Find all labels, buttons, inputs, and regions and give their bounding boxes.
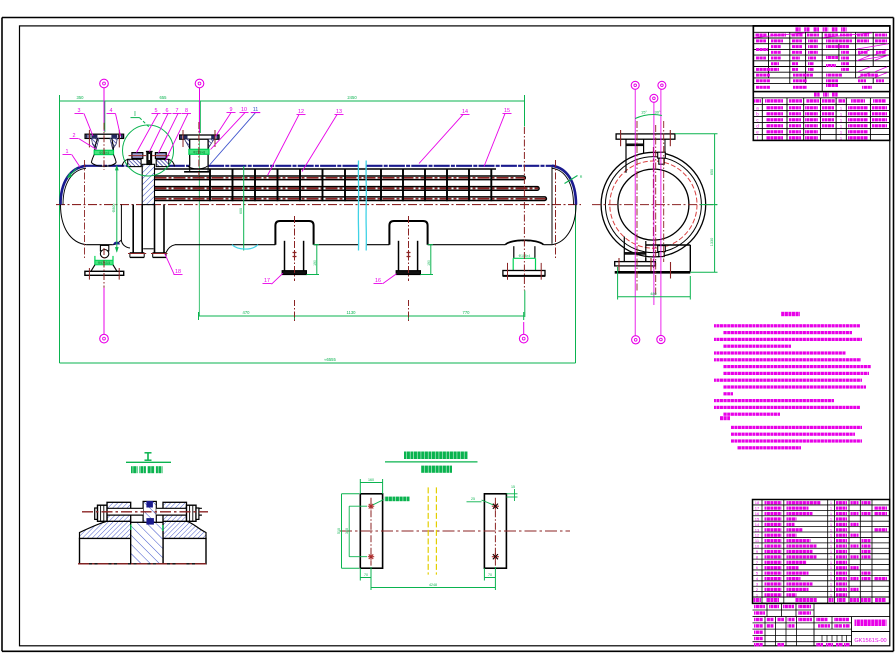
N1 bolts (red ticks) <box>88 130 90 148</box>
bill of materials table <box>753 500 890 604</box>
detail I: left flange ring <box>107 502 131 521</box>
svg-text:25: 25 <box>471 497 475 501</box>
svg-text:18: 18 <box>755 500 760 505</box>
detail I: right nut/washer <box>187 505 197 521</box>
main vessel centerline <box>56 204 581 206</box>
svg-text:17: 17 <box>755 506 760 511</box>
nozzle schedule table <box>753 91 890 93</box>
extension line left <box>59 99 61 363</box>
plate centerlines (red) <box>370 498 372 566</box>
svg-text:15: 15 <box>511 485 515 489</box>
svg-text:1130: 1130 <box>346 310 356 315</box>
detail I: right flange hub (hatched) <box>163 521 206 538</box>
right head lower half <box>552 205 576 245</box>
dimension line top overall <box>60 100 525 102</box>
end view bottom dim (green) <box>617 267 619 300</box>
cyan arc below shell <box>232 245 258 249</box>
tubesheet (sectioned band down to centerline) <box>142 164 154 204</box>
detail I circle (green) <box>123 125 174 176</box>
dimension line bottom row (nozzle/saddle spacing) <box>199 315 524 317</box>
end view right dims (green) <box>675 133 718 135</box>
N2 gasket (green) <box>189 149 209 154</box>
green dims: bottom left <box>359 568 361 580</box>
N1 skirt/weld to shell <box>91 155 94 163</box>
shell top line (navy, sectioned) <box>169 165 190 167</box>
bottom-left nozzle (drain on bonnet): coupling <box>100 245 108 251</box>
saddle centerline <box>408 216 410 281</box>
bonnet hub/tangent line <box>120 205 122 241</box>
tube bundle rows <box>155 168 497 170</box>
datum bubble a (nozzle N1) <box>100 79 109 88</box>
saddle centerline extensions (red) <box>294 300 296 321</box>
U-tube pair <box>155 197 547 201</box>
datum bubble b (nozzle N2) <box>195 79 204 88</box>
saddle height dim (green) <box>316 245 318 275</box>
svg-text:350: 350 <box>77 95 85 100</box>
saddle support 17: wear plate <box>275 221 313 245</box>
green dim: overall hole span <box>494 567 496 590</box>
svg-text:GK1561S-00: GK1561S-00 <box>854 638 886 644</box>
N1 centerline <box>103 123 105 170</box>
saddle base plate <box>396 271 420 275</box>
dimension line bottom overall <box>60 362 576 364</box>
break lines (cyan) <box>357 161 359 251</box>
svg-text:10: 10 <box>755 544 760 549</box>
svg-text:≈6555: ≈6555 <box>324 357 336 362</box>
anchor bolt symbol <box>293 252 297 254</box>
drain pipe/gasket (green) <box>94 256 96 265</box>
svg-text:I: I <box>134 111 136 118</box>
technical characteristics table <box>753 26 890 92</box>
end view top nozzle <box>616 134 675 139</box>
right nozzle flange <box>503 271 545 276</box>
detail I: stud bands (white w/ black lines) <box>95 508 143 515</box>
green radius leader on left head <box>68 169 77 178</box>
svg-text:14: 14 <box>755 522 760 527</box>
vessel axis marks (yellow) <box>427 487 429 574</box>
green radius tick on right head <box>565 176 578 184</box>
girth flange below centerline (outside view) <box>132 205 134 253</box>
green leader: anchor bolt hole note <box>373 500 384 505</box>
end view: flange outer circle <box>601 152 706 257</box>
support diagram title (green) <box>404 452 468 460</box>
svg-text:770: 770 <box>463 310 471 315</box>
drain bolts (red) <box>88 268 90 280</box>
right nozzle pipe <box>513 246 515 258</box>
svg-text:16: 16 <box>755 511 760 516</box>
small boss fitting right top <box>658 152 666 158</box>
detail I: center tubesheet block (hatched) <box>131 522 163 564</box>
navy weld wedge on bonnet bottom <box>113 242 120 245</box>
extension line N2 center <box>198 101 200 316</box>
svg-text:480: 480 <box>650 292 656 296</box>
svg-text:190: 190 <box>313 260 317 266</box>
saddle support 16: wear plate <box>389 221 427 245</box>
detail I: right shell section <box>163 538 206 563</box>
green dims: hole spacing <box>349 505 367 507</box>
svg-text:340: 340 <box>345 528 349 534</box>
bonnet cylinder top (navy sectioned shell line) <box>86 165 128 167</box>
green dim at x=243.7 through shell <box>243 166 245 251</box>
drain cone + flange <box>91 265 95 272</box>
small boss fitting bottom <box>658 246 666 252</box>
drain centerline <box>103 248 105 288</box>
end view nozzle centerlines (dark red) <box>636 121 638 292</box>
technical notes title <box>781 312 800 316</box>
detail I title <box>145 452 152 454</box>
bottom nozzle bolts (red) <box>618 258 620 272</box>
svg-text:R: R <box>580 175 583 179</box>
green dims: right plate <box>506 493 517 495</box>
right nozzle bolts (red) <box>507 263 509 280</box>
N2 shell opening <box>189 166 191 172</box>
detail I: bolt axis (red) <box>82 511 208 513</box>
girth flange: right flange ring (sectioned) <box>156 159 169 166</box>
tube row (dark red) <box>155 198 541 200</box>
baffle plates <box>209 169 211 202</box>
svg-text:1330: 1330 <box>710 238 714 246</box>
end view: bolt circle (red dashed) <box>610 161 697 248</box>
datum lines into end view <box>634 89 636 335</box>
end view vertical centerline <box>652 147 654 268</box>
shell bottom line <box>175 244 275 246</box>
svg-text:70: 70 <box>364 573 368 577</box>
bolt holes (red stars) <box>368 505 374 507</box>
right base plate <box>484 494 506 568</box>
end view horizontal centerline <box>592 204 717 206</box>
vent stub on tubesheet <box>147 152 152 165</box>
saddle centerline <box>294 216 296 281</box>
saddle web <box>398 241 400 271</box>
detail I: right flange ring <box>163 502 187 521</box>
end view datum bubbles <box>631 81 639 89</box>
fillet: girth flange to shell bottom <box>166 245 175 253</box>
end view: shell inner circle <box>618 169 689 240</box>
detail I: bottom centerline (red) <box>78 563 208 565</box>
N2 pipe walls <box>189 139 191 166</box>
svg-text:15°: 15° <box>641 110 647 115</box>
green dims: top of left plate <box>359 479 361 494</box>
anchor bolt symbol <box>407 252 411 254</box>
technical notes body lines <box>714 324 860 327</box>
internal diameter dim (green) at x=117 <box>116 166 118 252</box>
svg-text:30°: 30° <box>654 110 660 115</box>
saddle base plate <box>282 271 306 275</box>
girth flange studs <box>132 153 143 159</box>
nozzle N2 (on shell top): flange <box>180 135 219 139</box>
left head lower half (outside view) <box>61 205 87 245</box>
end view: raised face circle <box>605 157 701 253</box>
N1 neck <box>95 138 98 150</box>
right nozzle centerline (long) <box>523 127 525 290</box>
svg-text:470: 470 <box>243 310 251 315</box>
detail I: left nut/washer <box>95 508 98 519</box>
girth flange: left flange ring (sectioned, above CL) <box>128 159 141 166</box>
detail I: left flange hub (hatched) <box>80 521 131 538</box>
right head tangent line <box>551 167 553 244</box>
svg-text:190: 190 <box>427 260 431 266</box>
N1 gasket (green) <box>94 150 113 154</box>
svg-text:510: 510 <box>337 528 341 534</box>
bottom-right nozzle: reinforced opening dome <box>505 240 543 244</box>
svg-text:70: 70 <box>488 573 492 577</box>
svg-text:2450: 2450 <box>347 95 357 100</box>
green extension right nozzle to dim row <box>524 290 526 317</box>
angular dim (green) <box>635 115 662 119</box>
right head tangent centerline <box>555 160 557 260</box>
bonnet cylinder bottom <box>86 244 112 246</box>
notes: second block <box>720 416 730 420</box>
saddle height dim (green) <box>430 245 432 275</box>
svg-text:655: 655 <box>160 95 168 100</box>
svg-text:4248: 4248 <box>429 583 437 587</box>
svg-text:15: 15 <box>755 516 760 521</box>
head tangent seam centerline (red) <box>84 160 86 258</box>
svg-text:13: 13 <box>755 527 760 532</box>
datum bubble d (bottom right nozzle) <box>519 334 528 343</box>
drawing outer border <box>2 17 894 19</box>
datum bubble below end view (d) <box>632 336 640 344</box>
top nozzle bolts (red) <box>620 130 622 146</box>
U-tube pair <box>155 176 526 180</box>
datum bubble below end view (f) <box>657 335 665 343</box>
end view bottom nozzle <box>623 237 625 262</box>
title block <box>753 602 890 604</box>
saddle web <box>284 241 286 271</box>
svg-text:Φ800: Φ800 <box>112 204 116 213</box>
svg-text:12: 12 <box>755 533 760 538</box>
green dims: left outer height <box>342 493 360 495</box>
left base plate <box>360 494 382 568</box>
N2 bolts (red ticks) <box>182 130 184 147</box>
svg-text:160: 160 <box>368 478 374 482</box>
extension line right <box>575 205 577 363</box>
right dished head, navy sectioned top band <box>552 166 576 205</box>
detail I: tubesheet stem <box>143 501 156 522</box>
end view saddle <box>646 244 691 246</box>
bolt centerline ticks at flange bottoms (red) <box>128 253 146 255</box>
nozzle N1 (on bonnet top): flange <box>85 134 124 138</box>
left dished head (bonnet head), sectioned top navy band <box>61 166 87 205</box>
U-tube pair <box>155 187 540 191</box>
detail I: left shell section <box>80 538 131 563</box>
detail I: navy gaskets <box>147 501 153 507</box>
N2 centerline <box>198 122 200 176</box>
datum bubble c (bottom left nozzle) <box>100 334 109 343</box>
svg-text:600: 600 <box>239 208 243 214</box>
right nozzle gasket (green) <box>512 258 514 270</box>
svg-text:650: 650 <box>710 169 714 175</box>
